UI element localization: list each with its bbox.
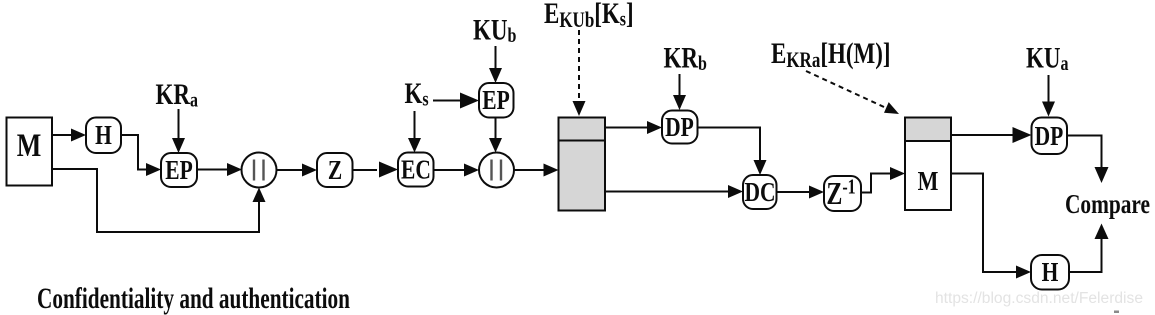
svg-text:EP: EP <box>165 155 192 185</box>
svg-text:https://blog.csdn.net/Felerdis: https://blog.csdn.net/Felerdise <box>935 290 1143 307</box>
wire H2 to Compare <box>1069 238 1102 272</box>
wire Z to EC <box>353 169 378 171</box>
arrowhead into concat2 top <box>489 138 502 153</box>
svg-text:KRb: KRb <box>664 41 707 76</box>
arrowhead into packet box <box>544 164 559 177</box>
wire DC to Zinv <box>777 191 811 193</box>
wire DP1 to DC <box>698 128 761 162</box>
svg-text:EKUb[Ks]: EKUb[Ks] <box>544 0 634 33</box>
arrowhead into EC top <box>408 138 421 153</box>
arrowhead into DP1 top <box>673 95 686 110</box>
svg-text:EKRa[H(M)]: EKRa[H(M)] <box>771 36 891 72</box>
node concat2 (||) <box>479 153 514 188</box>
arrowhead into box M2 left <box>890 167 905 180</box>
arrowhead into EC <box>379 162 398 178</box>
node EP2 (public-key encrypt session key) <box>479 83 514 118</box>
box M1 (source message) <box>7 118 53 186</box>
arrowhead into concat1 bottom <box>253 188 266 203</box>
svg-text:M: M <box>918 167 939 197</box>
arrowhead into DC top <box>754 160 767 175</box>
node Z (compress) <box>317 153 353 187</box>
wire Ks to EP2 <box>433 100 461 102</box>
node EP1 (public-key encrypt) <box>161 153 197 187</box>
wire Zinv to box M2 <box>861 174 891 193</box>
wire KRb to DP1 top <box>679 74 681 97</box>
packet box (ciphertext message, shaded) <box>559 118 606 211</box>
wire box M2 to DP2 <box>951 134 1014 136</box>
node DP1 (public-key decrypt) <box>662 111 698 144</box>
node Zinv (decompress Z-1) <box>824 176 861 211</box>
arrowhead into concat2 left <box>464 164 479 177</box>
arrowhead into EP2 <box>460 93 479 109</box>
wire KRa to EP1 <box>178 109 180 141</box>
svg-text:KUb: KUb <box>473 13 516 48</box>
wire Ks to EC top <box>414 111 416 140</box>
wire EC to concat2 <box>434 169 466 171</box>
wire packet box to DC <box>605 191 729 193</box>
wire EP1 to concat1 <box>197 169 229 171</box>
svg-text:H: H <box>1042 257 1059 287</box>
stray mark <box>1114 311 1119 314</box>
arrowhead down into Compare <box>1095 167 1109 183</box>
svg-text:Compare: Compare <box>1065 190 1150 220</box>
arrowhead into H1 <box>71 129 86 142</box>
wire packet box to DP1 <box>605 127 647 129</box>
wire KUb to EP2 top <box>495 46 497 70</box>
svg-text:M: M <box>17 128 42 163</box>
dashed wire EKRa to box M2 top <box>806 71 884 107</box>
wire concat1 to Z <box>277 169 304 171</box>
arrowhead into DC left <box>728 185 743 198</box>
node DC (symmetric decrypt) <box>743 175 777 209</box>
svg-text:Confidentiality and authentica: Confidentiality and authentication <box>37 281 350 314</box>
wire M1 to H1 <box>52 134 74 136</box>
arrowhead into DP2 top <box>1042 102 1055 117</box>
wire DP2 to Compare <box>1067 136 1102 169</box>
svg-text:KRa: KRa <box>156 77 198 112</box>
svg-text:Z: Z <box>328 155 342 185</box>
wire EP2 to concat2 <box>495 118 497 141</box>
arrowhead into concat1 <box>227 163 242 176</box>
node DP2 (public-key decrypt signature) <box>1032 118 1068 155</box>
svg-text:DP: DP <box>665 112 694 142</box>
arrowhead into DP2 <box>1013 127 1032 143</box>
arrowhead into EP2 top <box>489 68 502 83</box>
wire H1 to EP1 <box>121 135 149 170</box>
node concat1 (||) <box>242 153 277 188</box>
svg-text:DP: DP <box>1035 121 1064 151</box>
node H2 (hash verify) <box>1031 255 1069 290</box>
svg-text:Ks: Ks <box>405 76 429 111</box>
box M2 (received message, shaded header) <box>905 118 951 211</box>
arrowhead into packet box top (dashed) <box>573 101 586 116</box>
arrowhead into Z <box>302 164 317 177</box>
node H1 (hash) <box>86 118 121 154</box>
arrowhead into EP1 top <box>172 138 185 153</box>
svg-text:H: H <box>95 120 112 150</box>
arrowhead into DP1 <box>647 121 662 134</box>
arrowhead into EP1 <box>146 163 161 176</box>
wire M1 feedback to concat1 bottom <box>52 169 259 232</box>
svg-text:EC: EC <box>401 155 431 185</box>
arrowhead into Zinv <box>809 186 824 199</box>
wire concat2 to packet box <box>514 169 544 171</box>
svg-text:DC: DC <box>744 177 775 207</box>
svg-text:KUa: KUa <box>1026 41 1068 76</box>
wire KUa to DP2 top <box>1048 75 1050 103</box>
arrowhead up into Compare <box>1095 224 1109 240</box>
arrowhead into box M2 top (dashed) <box>884 102 899 114</box>
node EC (symmetric encrypt) <box>398 153 434 187</box>
arrowhead into H2 <box>1016 266 1031 279</box>
wire box M2 to H2 <box>951 174 1017 273</box>
dashed wire EKUb[Ks] to packet box top <box>578 30 580 103</box>
svg-text:EP: EP <box>482 85 509 115</box>
